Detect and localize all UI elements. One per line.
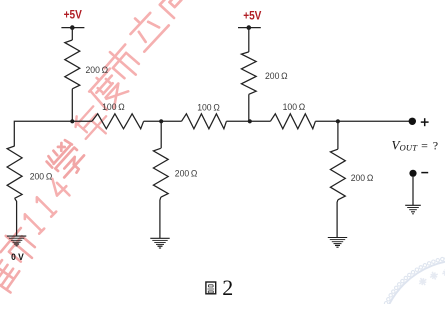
output + polarity sign <box>421 118 429 126</box>
node C junction dot <box>248 119 252 123</box>
wire: left resistor to ground <box>15 198 17 236</box>
wire: R3 to R4 through node B <box>144 120 182 122</box>
wire: R7 to right ground <box>336 200 339 238</box>
+5V supply rail bar (left) <box>61 25 84 30</box>
node D junction dot <box>336 119 340 123</box>
output − polarity sign <box>421 172 428 174</box>
watermark character 市 <box>0 224 42 270</box>
wire: − terminal to output ground <box>412 177 414 206</box>
svg-text:0 V: 0 V <box>11 252 24 262</box>
wire: node D down to R7 <box>337 121 339 149</box>
watermark character 1 <box>34 195 56 217</box>
svg-text:VOUT = ?: VOUT = ? <box>392 137 439 152</box>
watermark character 度 <box>85 66 131 112</box>
wire: R1 to node A <box>71 89 73 122</box>
svg-text:+5V: +5V <box>64 8 83 22</box>
ground (output reference) <box>405 205 421 214</box>
watermark character 雄 <box>0 255 23 301</box>
svg-text:100 Ω: 100 Ω <box>197 103 220 114</box>
svg-text:200 Ω: 200 Ω <box>30 172 53 183</box>
wire: R2 to node C <box>248 94 250 121</box>
svg-text:200 Ω: 200 Ω <box>175 169 198 180</box>
svg-text:200 Ω: 200 Ω <box>351 173 374 184</box>
watermark character 立 <box>123 5 169 51</box>
ground (right shunt) <box>328 238 347 248</box>
resistor 100Ω (second, horizontal) <box>182 114 227 129</box>
watermark character 學 <box>45 138 89 182</box>
resistor 200Ω (left supply) <box>65 40 80 89</box>
resistor 100Ω (first, horizontal) <box>92 114 144 129</box>
ground (middle) <box>150 238 169 248</box>
wire: left +5V to R1 <box>71 28 73 41</box>
figure caption 圖 2 <box>206 275 233 300</box>
svg-text:2: 2 <box>222 275 233 300</box>
node A junction dot <box>70 119 74 123</box>
output − terminal dot <box>409 170 416 177</box>
resistor 100Ω (third, horizontal) <box>270 114 315 129</box>
resistor 200Ω (right supply) <box>241 52 256 94</box>
watermark character 高 <box>145 0 195 20</box>
svg-text:100 Ω: 100 Ω <box>283 102 306 113</box>
svg-text:200 Ω: 200 Ω <box>265 71 288 82</box>
wire: R4 to R5 through node C <box>226 120 270 122</box>
resistor 200Ω (middle shunt) <box>153 148 168 197</box>
resistor 200Ω (leftmost, to 0V ground) <box>7 146 22 198</box>
wire: main horizontal bus segment left corner to R3 <box>14 121 92 146</box>
resistor 200Ω (right shunt) <box>330 149 345 200</box>
svg-text:200 Ω: 200 Ω <box>86 65 109 76</box>
wire: R5 to output + terminal <box>315 120 411 122</box>
watermark character 1 <box>22 212 44 234</box>
watermark character 4 <box>46 175 72 201</box>
svg-text:+5V: +5V <box>243 9 262 23</box>
watermark character 年 <box>70 102 115 147</box>
wire: R6 to middle ground <box>159 197 162 238</box>
+5V supply rail bar (right) <box>238 25 261 30</box>
ground (left, 0V reference) <box>7 236 26 246</box>
svg-text:100 Ω: 100 Ω <box>102 102 125 113</box>
seal watermark arc (bottom-right, faint blue) <box>380 257 445 309</box>
wire: node B down to R6 <box>160 121 162 148</box>
watermark character 市 <box>100 40 147 86</box>
node B junction dot <box>159 119 163 123</box>
output + terminal dot <box>409 118 416 125</box>
wire: right +5V to R2 <box>248 28 250 52</box>
